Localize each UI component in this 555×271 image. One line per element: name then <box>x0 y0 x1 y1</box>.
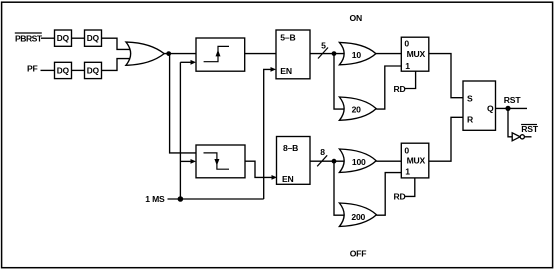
wire RD1 to MUX1 select <box>405 71 416 88</box>
wire MUX1 output to S input <box>429 54 463 98</box>
svg-text:1 MS: 1 MS <box>145 194 165 204</box>
wire gate 100 output to MUX2 <box>376 160 401 162</box>
node A junction dot <box>166 51 171 56</box>
arrowhead into U1 trigger <box>191 60 197 65</box>
svg-text:PF: PF <box>27 63 38 73</box>
flip-flop DQ A2 <box>85 30 102 46</box>
counter 5-B <box>276 30 310 79</box>
inverter U4 triangle <box>512 133 520 141</box>
edge detector U2 (falling) <box>196 145 245 178</box>
wire U2 output to 8-B EN <box>245 161 272 177</box>
svg-text:8–B: 8–B <box>283 143 298 153</box>
inverter U4 bubble <box>520 135 524 139</box>
svg-text:DQ: DQ <box>57 33 70 43</box>
svg-text:DQ: DQ <box>87 66 100 76</box>
svg-text:MUX: MUX <box>407 49 426 59</box>
edge detector U1 (rising) <box>196 38 245 71</box>
wire OR output to edge-detector U1 <box>164 53 196 55</box>
svg-text:OFF: OFF <box>350 248 367 258</box>
svg-text:RST: RST <box>504 95 522 105</box>
decode gate 200 <box>339 203 376 226</box>
wire 1MS trigger arm into U1 <box>180 61 191 63</box>
svg-text:EN: EN <box>282 174 294 184</box>
falling edge arrowhead U2 <box>214 159 219 166</box>
rising edge symbol inside U1 <box>204 46 229 61</box>
falling edge symbol inside U2 <box>204 153 230 169</box>
wire gate 10 output to MUX1 <box>376 53 401 55</box>
wire inverter output stub <box>525 136 532 138</box>
wire U1 output to 5-B counter <box>245 53 276 55</box>
svg-text:Q: Q <box>487 103 494 113</box>
flip-flop DQ B2 <box>85 62 102 78</box>
wire 8-bit bus from counter to node C <box>310 160 345 162</box>
svg-text:ON: ON <box>350 13 363 23</box>
wire PBRST to DQ1 <box>41 37 55 39</box>
svg-text:PBRST: PBRST <box>15 33 43 43</box>
svg-text:20: 20 <box>352 105 362 115</box>
svg-text:MUX: MUX <box>407 155 426 165</box>
bus slash 8-bit <box>317 155 327 166</box>
rising edge arrowhead U1 <box>216 50 221 57</box>
svg-text:8: 8 <box>320 147 325 157</box>
wire gate 20 output riser to MUX1 input 1 <box>376 66 401 109</box>
svg-text:EN: EN <box>280 66 292 76</box>
wire MUX2 output to R input <box>429 117 463 161</box>
wire DQ3 to DQ4 <box>72 69 85 71</box>
wire node A down to edge-detector U2 input <box>170 54 196 153</box>
flip-flop DQ B1 <box>55 62 72 78</box>
svg-text:DQ: DQ <box>57 66 70 76</box>
mux MUX2 <box>401 143 429 178</box>
OR gate G1 <box>126 42 164 65</box>
svg-text:10: 10 <box>352 50 362 60</box>
arrowhead into 8-B EN <box>272 175 278 180</box>
svg-text:5–B: 5–B <box>280 33 295 43</box>
SR latch U3 <box>463 81 496 130</box>
svg-text:0: 0 <box>404 145 409 155</box>
wire 1MS trigger arm into U2 <box>180 160 191 162</box>
bus slash 5-bit <box>318 48 328 59</box>
wire Q output to RST node <box>496 107 528 109</box>
node C junction dot <box>332 159 337 164</box>
node RST junction dot <box>505 106 510 111</box>
wire DQ2 to OR gate top input <box>102 38 132 49</box>
arrowhead into 5-B EN <box>271 67 277 72</box>
wire DQ1 to DQ2 <box>72 37 85 39</box>
svg-text:RST: RST <box>521 124 539 134</box>
wire node B down to gate 20 <box>334 54 345 110</box>
wire 5-bit bus from counter to node B <box>310 53 345 55</box>
node B junction dot <box>332 51 337 56</box>
svg-text:200: 200 <box>351 212 365 222</box>
wire RD2 to MUX2 select <box>405 178 415 197</box>
svg-text:100: 100 <box>352 157 366 167</box>
wire node C down to gate 200 <box>334 161 345 215</box>
decode gate 100 <box>339 149 376 172</box>
svg-text:R: R <box>467 114 474 124</box>
overbar RST-bar <box>521 124 537 126</box>
overbar PBRST <box>15 32 42 34</box>
wire 1MS horizontal <box>168 198 264 200</box>
svg-text:DQ: DQ <box>87 33 100 43</box>
svg-text:1: 1 <box>405 61 410 71</box>
wire 1MS net vertical riser <box>179 62 181 199</box>
mux MUX1 <box>401 37 429 71</box>
svg-text:RD: RD <box>394 84 406 94</box>
svg-text:0: 0 <box>404 38 409 48</box>
svg-text:RD: RD <box>394 192 406 202</box>
svg-text:1: 1 <box>405 167 410 177</box>
wire PF to DQ3 <box>41 69 55 71</box>
wire 1MS up to 5-B EN <box>264 69 271 199</box>
wire RST node down to inverter <box>508 108 512 136</box>
counter 8-B <box>277 137 311 185</box>
decode gate 20 <box>339 97 376 120</box>
svg-text:S: S <box>467 94 473 104</box>
node 1MS junction dot <box>178 196 184 202</box>
svg-text:5: 5 <box>321 40 326 50</box>
arrowhead into U2 trigger <box>191 159 197 164</box>
decode gate 10 <box>339 42 376 64</box>
wire gate 200 output riser to MUX2 input 1 <box>377 173 402 216</box>
wire DQ4 to OR gate bottom input <box>102 59 132 71</box>
flip-flop DQ A1 <box>55 30 72 46</box>
